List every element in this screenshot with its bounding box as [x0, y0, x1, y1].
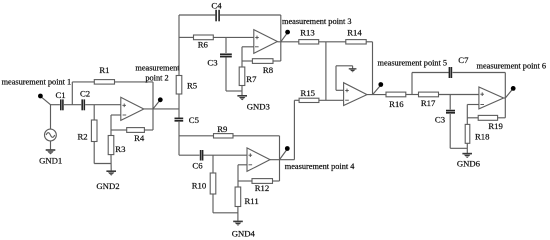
svg-text:R11: R11: [245, 196, 259, 206]
svg-text:R5: R5: [187, 80, 197, 90]
svg-text:C4: C4: [211, 0, 222, 10]
svg-text:R12: R12: [255, 183, 269, 193]
svg-text:R4: R4: [134, 133, 145, 143]
svg-text:GND4: GND4: [232, 228, 256, 238]
svg-text:R6: R6: [198, 40, 209, 50]
svg-text:C5: C5: [189, 115, 199, 125]
svg-text:measurement point 5: measurement point 5: [378, 58, 448, 67]
svg-text:R19: R19: [488, 121, 502, 131]
svg-text:R17: R17: [421, 98, 436, 108]
svg-text:measurement point 3: measurement point 3: [282, 17, 352, 26]
svg-text:measurement: measurement: [135, 63, 180, 72]
svg-text:GND6: GND6: [457, 159, 481, 169]
svg-text:R7: R7: [246, 74, 257, 84]
svg-text:C1: C1: [56, 90, 66, 100]
svg-text:R10: R10: [192, 180, 207, 190]
svg-text:R18: R18: [475, 132, 490, 142]
svg-text:R8: R8: [263, 65, 274, 75]
svg-text:R2: R2: [78, 132, 88, 142]
svg-text:R13: R13: [300, 28, 314, 38]
svg-text:C6: C6: [192, 161, 203, 171]
svg-text:C3: C3: [207, 57, 217, 67]
svg-text:R15: R15: [301, 88, 315, 98]
svg-text:R9: R9: [217, 124, 227, 134]
svg-text:GND1: GND1: [39, 156, 62, 166]
svg-text:measurement point 4: measurement point 4: [285, 162, 355, 171]
svg-text:measurement point 6: measurement point 6: [477, 62, 547, 71]
svg-text:R1: R1: [99, 65, 109, 75]
svg-text:GND2: GND2: [96, 181, 119, 191]
svg-text:C2: C2: [80, 88, 90, 98]
svg-text:point 2: point 2: [145, 73, 168, 82]
svg-text:C7: C7: [458, 55, 469, 65]
svg-text:R14: R14: [347, 28, 362, 38]
svg-text:GND3: GND3: [247, 102, 270, 112]
svg-text:measurement point 1: measurement point 1: [2, 78, 72, 87]
svg-text:C3: C3: [435, 114, 445, 124]
svg-text:R3: R3: [115, 144, 125, 154]
svg-text:R16: R16: [389, 99, 404, 109]
